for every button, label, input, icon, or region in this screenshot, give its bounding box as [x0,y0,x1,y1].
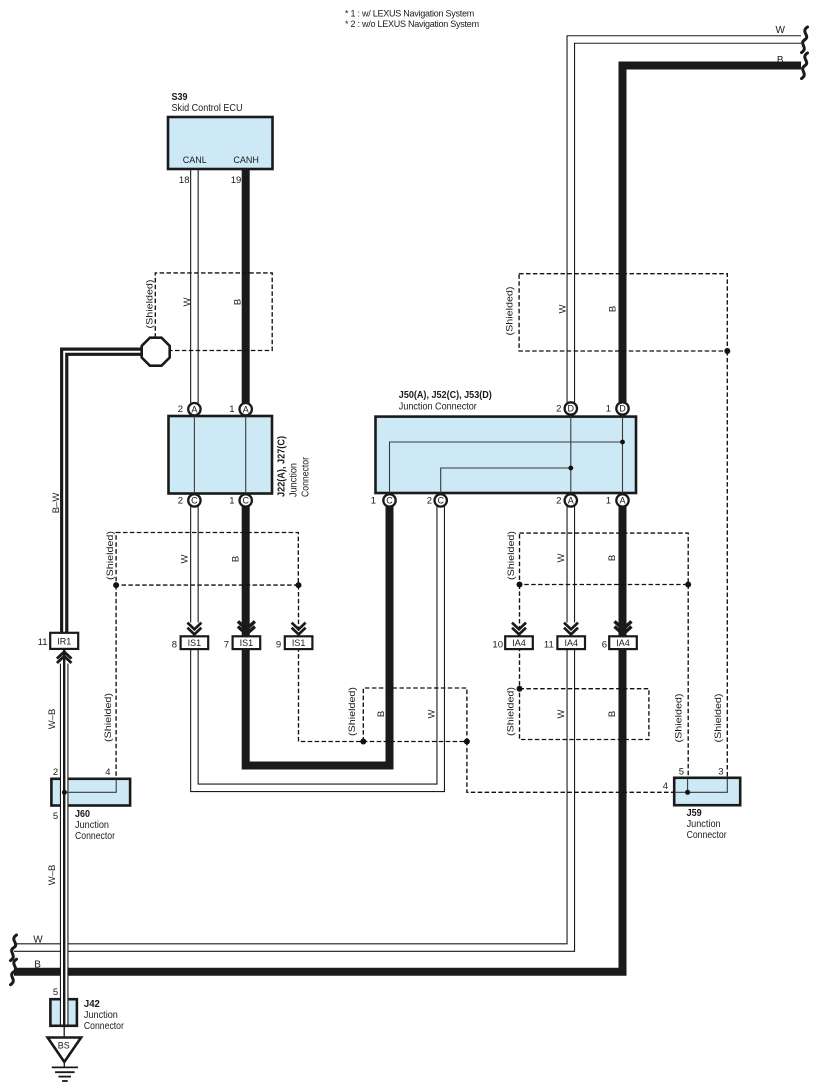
svg-text:Connector: Connector [75,831,116,842]
svg-text:J50(A), J52(C), J53(D): J50(A), J52(C), J53(D) [399,390,492,401]
J59 internal line pin4 [675,791,688,793]
shield junction dot top-right box [724,348,730,354]
shield junction dot lower-left box right [464,739,470,745]
J50 pin 1D [606,402,629,414]
shield line through IS1 9 [299,585,675,792]
J59 internal line pin3 [688,779,728,793]
svg-text:W: W [556,553,567,562]
svg-text:4: 4 [105,767,110,778]
svg-text:B: B [777,55,784,66]
svg-text:(Shielded): (Shielded) [506,687,516,736]
J50 pin 1C [371,494,396,506]
connector IS1 pin 9 [276,623,312,651]
J59 internal junction dot [685,790,690,795]
J50 pin 1A [606,494,629,506]
J50 internal junction dot [568,466,573,471]
svg-text:2: 2 [53,767,58,778]
J22 pin 1A [229,403,252,415]
shield box lower-right [520,689,649,740]
shield line to J59 pin3 [726,351,728,778]
svg-text:IA4: IA4 [512,638,526,648]
shield line to J60 pin4 [115,585,117,779]
shield junction dot upper-right box left [517,582,523,588]
svg-text:4: 4 [663,781,668,792]
J60 internal line pin4 to wire [64,780,116,793]
J50 pin 2A [556,494,577,506]
svg-text:D: D [619,404,626,414]
svg-text:5: 5 [53,987,58,998]
svg-text:* 2 : w/o LEXUS Navigation Sys: * 2 : w/o LEXUS Navigation System [345,19,479,29]
svg-text:1: 1 [371,495,376,506]
shield ground octagon [142,338,170,366]
svg-text:Skid Control ECU: Skid Control ECU [172,103,243,114]
shield junction dot mid-left box left [113,582,119,588]
svg-text:Connector: Connector [84,1021,125,1032]
svg-text:10: 10 [492,639,503,650]
svg-text:J42: J42 [84,999,100,1010]
junction connector J42 box [50,999,77,1026]
wire B J50 1D to right edge [623,66,802,404]
J22 pin 1C [229,494,252,506]
svg-text:W: W [558,304,569,313]
svg-text:W: W [180,554,191,563]
svg-text:B: B [607,711,618,717]
svg-text:C: C [191,496,198,506]
wire B J50 1A to left edge [14,506,623,972]
svg-text:(Shielded): (Shielded) [674,693,684,742]
connector IR1 pin 11 [38,633,78,663]
svg-text:A: A [243,404,249,414]
svg-text:18: 18 [179,175,190,186]
svg-text:A: A [191,404,197,414]
svg-text:9: 9 [276,639,281,650]
J60 internal junction dot [62,790,67,795]
J22 pin 2A [178,403,201,415]
shield box top-right [519,274,727,351]
wire B J22 1C to J50 1C [246,506,390,766]
svg-text:IS1: IS1 [292,638,306,648]
J50 internal line 1D-1A [622,417,624,493]
J22 internal line pin2 [193,416,195,494]
svg-text:3: 3 [718,767,723,778]
shield box mid-left [116,533,298,586]
wire B-W octagon to IR1 [64,352,142,633]
shield junction dot lower-right box [517,686,523,692]
J50 internal line 2C to 2A [441,468,571,493]
svg-text:C: C [386,496,393,506]
svg-text:W: W [556,709,567,718]
svg-text:IA4: IA4 [564,638,578,648]
shield box top-left [155,273,272,351]
wire W J50 2D to right edge [571,40,801,404]
svg-text:S39: S39 [172,92,188,103]
svg-text:J59: J59 [687,808,702,819]
connector IS1 pin 8 [172,623,208,651]
svg-text:W: W [33,935,43,946]
svg-text:IS1: IS1 [240,638,254,648]
continuation squiggle B right [802,53,808,79]
svg-text:B: B [231,556,242,562]
ECU S39 box [168,117,273,169]
svg-text:* 1 : w/ LEXUS Navigation Syst: * 1 : w/ LEXUS Navigation System [345,9,474,19]
svg-text:(Shielded): (Shielded) [145,279,155,328]
shield junction dot upper-right box right [685,582,691,588]
wire W J50 2A to left edge [14,506,571,948]
junction connector J50 box [376,417,637,493]
svg-text:(Shielded): (Shielded) [347,687,357,736]
svg-text:1: 1 [606,495,611,506]
shield line to J59 pin5 [687,585,689,778]
svg-text:5: 5 [53,811,58,822]
svg-text:IA4: IA4 [616,638,630,648]
svg-text:C: C [437,496,444,506]
wire W J22 2C to J50 2C [194,506,440,788]
svg-text:J60: J60 [75,809,90,820]
svg-text:A: A [568,496,574,506]
svg-text:BS: BS [58,1040,70,1050]
svg-text:D: D [568,404,575,414]
svg-text:1: 1 [229,404,234,415]
junction connector J60 box [51,779,130,806]
wire W-B IR1 to J42 [60,650,69,1025]
svg-text:1: 1 [229,495,234,506]
DASHED SHIELD LINES [116,273,727,792]
J50 internal line 1C to 1D [390,442,623,493]
shield junction dot lower-left box left [360,739,366,745]
svg-text:2: 2 [556,404,561,415]
svg-text:11: 11 [38,637,48,648]
connector IA4 pin 10 [492,623,532,651]
svg-text:1: 1 [606,404,611,415]
svg-text:2: 2 [556,495,561,506]
svg-text:11: 11 [544,639,554,650]
J22 pin 2C [178,494,201,506]
shield box lower-left [363,688,467,742]
svg-text:B–W: B–W [51,493,62,514]
junction connector J59 box [674,778,740,805]
svg-text:B: B [376,711,387,717]
svg-text:W: W [427,709,438,718]
wire B CANH S39 to J22 [242,168,250,403]
svg-text:Connector: Connector [301,456,312,497]
svg-text:Junction: Junction [84,1010,118,1021]
svg-text:B: B [233,299,244,305]
J59 internal line pin5 [687,779,689,793]
shield junction dot mid-left box right [296,582,302,588]
svg-text:Connector: Connector [687,830,728,841]
shield line through IA4 10 [519,585,521,689]
svg-text:W: W [776,25,786,36]
svg-text:6: 6 [602,639,607,650]
connector IA4 pin 11 [544,623,585,651]
connector IS1 pin 7 [224,621,260,650]
svg-text:2: 2 [178,495,183,506]
svg-text:(Shielded): (Shielded) [105,531,115,580]
svg-text:Junction: Junction [687,819,721,830]
shield box upper-right [520,533,689,584]
svg-text:IS1: IS1 [188,638,202,648]
svg-text:W: W [182,297,193,306]
svg-text:CANL: CANL [183,155,207,165]
svg-text:B: B [607,555,618,561]
svg-text:(Shielded): (Shielded) [506,531,516,580]
svg-text:A: A [619,496,625,506]
J50 internal line 2D-2A [570,417,572,493]
svg-text:Junction Connector: Junction Connector [399,402,478,413]
svg-text:2: 2 [427,495,432,506]
junction connector J22 box [169,416,273,494]
svg-text:(Shielded): (Shielded) [713,693,723,742]
svg-text:IR1: IR1 [57,637,71,647]
continuation squiggle W left [11,935,17,961]
svg-text:Junction: Junction [75,820,109,831]
svg-text:7: 7 [224,639,229,650]
J50 pin 2D [556,402,577,414]
svg-text:W–B: W–B [47,709,58,730]
svg-text:B: B [608,306,619,312]
svg-text:5: 5 [679,767,684,778]
svg-text:Junction: Junction [289,463,300,497]
PIN CIRCLES [178,402,629,506]
continuation squiggle B left [11,959,17,985]
svg-text:8: 8 [172,639,177,650]
svg-text:(Shielded): (Shielded) [103,693,113,742]
wire W CANL S39 to J22 [190,170,199,403]
svg-text:B: B [34,960,41,971]
J50 pin 2C [427,494,447,506]
svg-text:C: C [242,496,249,506]
svg-text:(Shielded): (Shielded) [505,286,515,335]
connector IA4 pin 6 [602,621,637,650]
svg-text:19: 19 [231,175,242,186]
ground BS [48,1026,82,1081]
J22 internal line pin1 [245,416,247,494]
svg-text:J22(A), J27(C): J22(A), J27(C) [277,436,288,497]
svg-text:CANH: CANH [233,155,259,165]
continuation squiggle W right [802,27,808,53]
svg-text:2: 2 [178,404,183,415]
svg-text:W–B: W–B [47,865,58,886]
J50 internal junction dot [620,440,625,445]
